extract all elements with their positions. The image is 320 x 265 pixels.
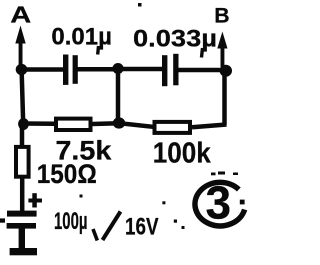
figure number circle dash (240, 200, 245, 205)
junction dot top-mid (112, 63, 123, 74)
wire right rail: node B down to corner (222, 71, 227, 125)
wire top rail: top-mid junction to C2 (118, 67, 163, 72)
speck (182, 226, 185, 229)
capacitor C3 bottom plate (7, 223, 36, 229)
wire left rail: node A down to bottom-left junction (22, 70, 24, 124)
mu tail of 0.01µ (96, 46, 100, 55)
resistor R1 box (56, 119, 91, 130)
speck (162, 201, 165, 204)
svg-text:100µ: 100µ (54, 208, 88, 235)
speck (80, 195, 83, 198)
speck (233, 173, 238, 176)
svg-text:100k: 100k (153, 138, 212, 170)
value label slash (C3) (103, 212, 121, 241)
svg-text:A: A (10, 2, 31, 28)
wire stub at left margin (0, 218, 5, 222)
wire mid vertical: top-mid to bottom-mid junction (116, 69, 121, 124)
junction dot node A (16, 64, 28, 75)
speck (218, 172, 225, 175)
speck (211, 173, 216, 176)
resistor R3 box (vertical) (16, 147, 29, 177)
wire bottom-right: corner to R2 (192, 125, 227, 128)
capacitor C3 electrolytic top plate (7, 211, 37, 217)
wire top rail: C2 to node B (178, 68, 226, 73)
junction dot node B (220, 65, 232, 77)
wire bottom rail: R1 to bottom-mid junction (92, 121, 119, 126)
polarity plus sign (C3) (28, 193, 42, 207)
mu tail of 0.033µ (202, 48, 203, 58)
mu tail of 100µ (93, 229, 97, 241)
wire: C3 bottom terminal bar (10, 248, 37, 255)
terminal arrow B (217, 32, 227, 68)
terminal arrow A (15, 26, 25, 67)
speck (174, 220, 177, 223)
figure number circle (195, 182, 245, 226)
speck (138, 3, 142, 7)
junction dot bottom-left (18, 118, 29, 130)
wire: bottom-left junction down to R3 (20, 124, 25, 146)
wire top rail: node A to C1 (22, 67, 64, 72)
svg-text:0.01µ: 0.01µ (51, 24, 112, 51)
wire top rail: C1 to top-mid junction (78, 67, 119, 72)
wire: R3 down to C3 (20, 178, 25, 212)
capacitor C1 plates (63, 55, 78, 85)
wire bottom rail: bottom-left junction to R1 (23, 121, 55, 126)
svg-text:0.033µ: 0.033µ (133, 25, 217, 52)
capacitor C2 plates (162, 54, 179, 86)
wire: C3 lead stem (19, 228, 25, 249)
svg-text:150Ω: 150Ω (37, 159, 97, 189)
svg-text:3: 3 (206, 177, 232, 229)
svg-text:B: B (214, 4, 229, 28)
resistor R2 box (155, 122, 191, 133)
junction dot bottom-mid (113, 117, 125, 128)
svg-text:16V: 16V (125, 214, 159, 241)
wire bottom rail: bottom-mid junction to R2 (119, 123, 153, 127)
